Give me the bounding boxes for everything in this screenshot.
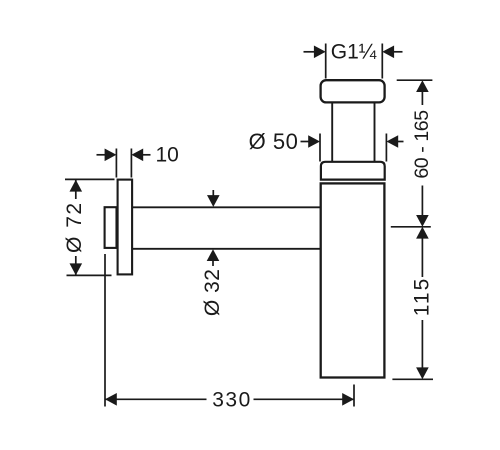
svg-text:Ø 50: Ø 50 <box>249 129 299 154</box>
siphon body <box>321 183 385 377</box>
top flange <box>321 80 385 102</box>
dim 330 <box>105 254 354 411</box>
svg-text:G1¼: G1¼ <box>331 40 377 63</box>
wall pipe stub <box>105 207 117 248</box>
dim G1 1/4 <box>304 40 403 78</box>
svg-text:Ø 72: Ø 72 <box>63 201 86 253</box>
vertical inlet pipe <box>332 100 374 162</box>
dim 10 <box>97 143 179 177</box>
dim diameter 50 <box>249 129 404 162</box>
dim 115 <box>392 227 433 379</box>
svg-text:330: 330 <box>212 388 252 411</box>
svg-text:115: 115 <box>411 277 434 316</box>
svg-text:Ø 32: Ø 32 <box>201 269 224 317</box>
wall escutcheon flange <box>118 180 133 275</box>
dim diameter 72 <box>63 179 115 275</box>
dim 60 - 165 <box>391 80 433 227</box>
horizontal waste pipe <box>133 207 320 249</box>
svg-text:60 - 165: 60 - 165 <box>411 110 433 179</box>
collar nut <box>321 162 385 180</box>
dim diameter 32 <box>201 190 224 316</box>
svg-text:10: 10 <box>156 143 179 166</box>
